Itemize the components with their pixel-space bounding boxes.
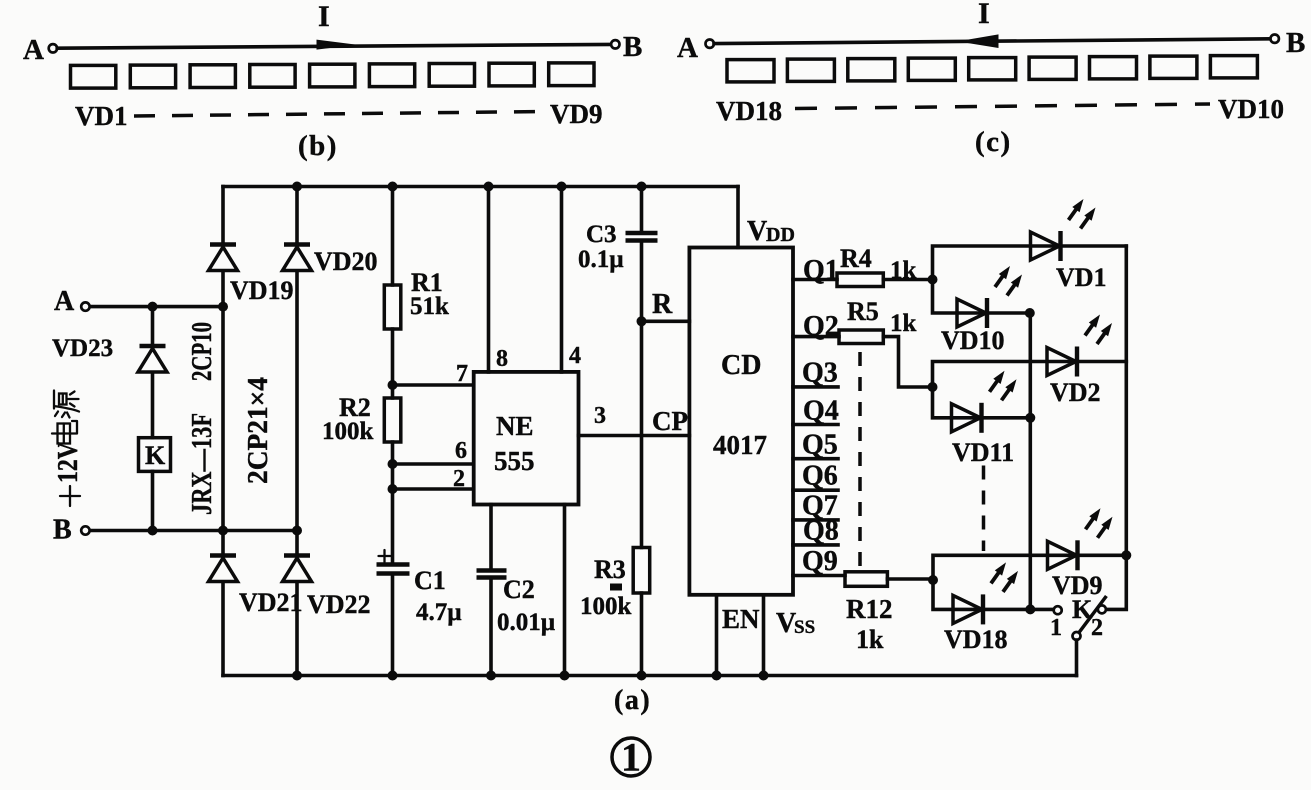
svg-text:2CP10: 2CP10 <box>186 322 218 381</box>
svg-text:K: K <box>1072 595 1093 624</box>
svg-text:6: 6 <box>455 438 467 464</box>
svg-text:555: 555 <box>494 446 535 476</box>
svg-text:VD2: VD2 <box>1050 378 1101 407</box>
svg-text:Q6: Q6 <box>802 461 838 492</box>
svg-text:EN: EN <box>722 604 760 634</box>
svg-text:CD: CD <box>721 350 761 381</box>
svg-text:C3: C3 <box>586 221 617 248</box>
svg-text:(b): (b) <box>298 130 338 162</box>
svg-text:100k: 100k <box>322 418 374 445</box>
svg-text:1: 1 <box>1050 615 1062 641</box>
svg-text:R12: R12 <box>846 594 893 624</box>
svg-text:Q3: Q3 <box>802 358 838 389</box>
svg-text:VD18: VD18 <box>944 625 1008 654</box>
svg-text:1: 1 <box>621 735 641 780</box>
svg-text:R: R <box>652 289 673 320</box>
svg-text:Q1: Q1 <box>803 255 839 286</box>
svg-text:C2: C2 <box>503 575 535 604</box>
svg-text:B: B <box>1286 27 1305 59</box>
svg-text:VD9: VD9 <box>550 99 603 129</box>
svg-text:SS: SS <box>794 617 815 638</box>
svg-text:Q5: Q5 <box>802 430 838 461</box>
svg-text:7: 7 <box>456 361 468 387</box>
svg-text:1k: 1k <box>856 625 884 654</box>
svg-text:VD10: VD10 <box>941 326 1005 355</box>
svg-text:4.7µ: 4.7µ <box>416 599 462 626</box>
svg-text:I: I <box>978 0 990 30</box>
svg-text:Q9: Q9 <box>802 546 838 577</box>
svg-text:R4: R4 <box>840 244 872 273</box>
svg-text:V: V <box>747 216 767 247</box>
svg-text:51k: 51k <box>410 293 449 320</box>
svg-text:A: A <box>54 286 75 317</box>
svg-text:1k: 1k <box>890 257 917 284</box>
svg-text:R3: R3 <box>594 555 626 584</box>
svg-text:100k: 100k <box>580 593 632 620</box>
svg-text:K: K <box>145 441 166 470</box>
svg-text:8: 8 <box>496 346 508 372</box>
svg-text:VD18: VD18 <box>716 96 782 126</box>
svg-text:4017: 4017 <box>713 430 767 460</box>
svg-text:VD10: VD10 <box>1218 94 1284 124</box>
svg-text:VD19: VD19 <box>230 276 294 305</box>
svg-text:3: 3 <box>594 403 606 429</box>
svg-text:VD1: VD1 <box>75 101 128 131</box>
svg-text:VD11: VD11 <box>952 438 1014 467</box>
svg-text:(c): (c) <box>975 126 1012 158</box>
svg-text:A: A <box>677 32 698 64</box>
svg-text:A: A <box>23 34 44 66</box>
svg-text:4: 4 <box>569 343 581 369</box>
svg-text:B: B <box>623 31 642 63</box>
svg-text:0.01µ: 0.01µ <box>497 609 555 636</box>
svg-text:B: B <box>53 515 72 546</box>
svg-text:VD23: VD23 <box>52 335 113 362</box>
svg-text:2: 2 <box>1091 615 1103 641</box>
svg-text:CP: CP <box>652 406 688 436</box>
svg-text:2: 2 <box>453 466 465 492</box>
svg-text:VD21: VD21 <box>239 588 303 617</box>
svg-text:DD: DD <box>766 224 795 246</box>
svg-text:2CP21×4: 2CP21×4 <box>243 377 274 484</box>
svg-text:Q8: Q8 <box>803 516 839 547</box>
svg-text:12V: 12V <box>53 442 84 483</box>
svg-text:1k: 1k <box>890 310 917 337</box>
svg-text:0.1µ: 0.1µ <box>578 246 624 273</box>
svg-text:Q2: Q2 <box>803 311 839 342</box>
svg-text:VD20: VD20 <box>314 247 378 276</box>
svg-text:Q4: Q4 <box>803 396 839 427</box>
svg-text:NE: NE <box>496 411 534 441</box>
svg-text:I: I <box>318 0 330 33</box>
svg-text:JRX—13F: JRX—13F <box>186 413 218 515</box>
svg-text:VD22: VD22 <box>307 590 371 619</box>
svg-text:R5: R5 <box>847 297 879 326</box>
svg-text:C1: C1 <box>414 566 446 595</box>
svg-text:(a): (a) <box>614 685 651 716</box>
svg-text:VD1: VD1 <box>1056 263 1107 292</box>
